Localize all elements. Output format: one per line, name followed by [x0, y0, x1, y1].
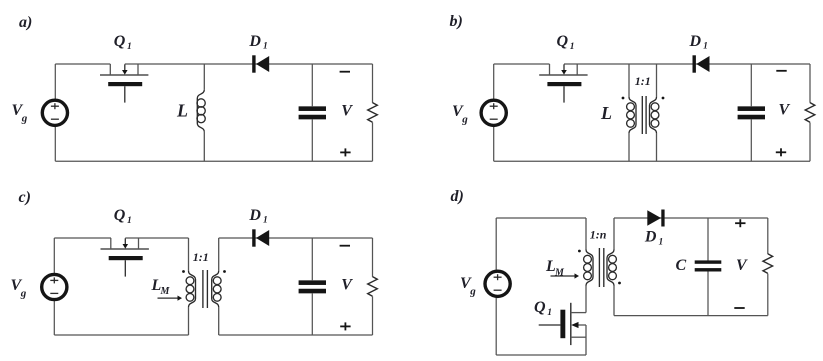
- svg-text:1:n: 1:n: [590, 228, 607, 242]
- transformer T (b): dot primary: [622, 97, 625, 100]
- label D1 (c): [248, 207, 267, 226]
- wire bottom rail secondary (d): [614, 315, 768, 317]
- svg-text:V: V: [341, 276, 353, 293]
- wire right branch (b): [809, 64, 811, 161]
- wire top rail secondary (d): [614, 217, 768, 219]
- transformer T (c): dot primary: [182, 270, 185, 273]
- label LM (c): [151, 277, 171, 297]
- transformer T (b): primary winding: [627, 64, 636, 161]
- svg-text:C: C: [676, 257, 687, 274]
- wire capacitor branch (b): [750, 64, 752, 161]
- transformer T (c): secondary winding: [212, 238, 221, 335]
- voltage source Vg (b): [481, 100, 506, 125]
- capacitor C (d): [695, 260, 722, 271]
- wire left branch (d): [495, 218, 497, 355]
- wire bottom rail primary (c): [54, 334, 188, 336]
- svg-text:D: D: [248, 33, 261, 50]
- label c): [19, 189, 31, 206]
- diode D1 (c): [252, 229, 269, 246]
- label Q1 (a): [114, 33, 132, 52]
- label V (a): [341, 102, 353, 119]
- wire bottom rail (b): [494, 160, 810, 162]
- transformer T (d): primary winding: [584, 218, 593, 313]
- transformer T (d): dot primary: [578, 250, 581, 253]
- label 1:1 (b): [635, 74, 651, 88]
- svg-text:Q: Q: [534, 299, 546, 316]
- transistor Q1 (b): [539, 64, 587, 103]
- label Vg (a): [12, 102, 28, 125]
- capacitor (b): [738, 106, 765, 119]
- diode D1 (a): [252, 55, 269, 72]
- wire top rail right (b): [564, 63, 810, 65]
- svg-text:1: 1: [127, 42, 132, 52]
- polarity minus (a): [340, 71, 350, 73]
- label D1 (a): [248, 33, 267, 52]
- label d): [451, 188, 464, 205]
- label D1 (d): [644, 229, 663, 248]
- svg-text:L: L: [600, 103, 612, 123]
- label Q1 (b): [557, 33, 575, 52]
- wire right branch (d): [767, 218, 769, 316]
- svg-text:1: 1: [263, 216, 268, 226]
- transistor Q1 (c): [101, 238, 149, 277]
- label V (d): [736, 257, 748, 274]
- svg-text:D: D: [644, 229, 657, 246]
- svg-text:1: 1: [703, 42, 708, 52]
- wire top rail primary (d): [496, 217, 586, 219]
- wire top rail secondary (c): [219, 237, 373, 239]
- wire capacitor branch (a): [311, 64, 313, 161]
- transformer T (c): core: [203, 270, 208, 308]
- label V (b): [779, 102, 791, 119]
- resistor load (a): [368, 103, 378, 123]
- wire top rail primary (c): [54, 237, 188, 239]
- svg-text:1: 1: [570, 42, 575, 52]
- magnetizing current arrow (c): [158, 296, 183, 301]
- label L (b): [600, 103, 612, 123]
- wire top rail left (b): [494, 63, 550, 65]
- label LM (d): [545, 258, 565, 278]
- wire left branch (c): [53, 238, 55, 335]
- svg-text:g: g: [461, 114, 468, 126]
- resistor load (d): [763, 254, 773, 274]
- polarity minus (b): [776, 70, 786, 72]
- svg-text:D: D: [689, 33, 702, 50]
- diode D1 (b): [693, 55, 710, 72]
- svg-text:1: 1: [127, 216, 132, 226]
- resistor load (c): [368, 277, 378, 297]
- svg-text:g: g: [21, 113, 28, 125]
- svg-text:1:1: 1:1: [635, 74, 651, 88]
- label Vg (c): [11, 277, 27, 300]
- svg-text:d): d): [451, 188, 464, 205]
- label D1 (b): [689, 33, 708, 52]
- polarity plus (d): [735, 219, 745, 227]
- wire bottom rail primary (d): [496, 354, 586, 356]
- label Vg (b): [452, 103, 468, 126]
- label Vg (d): [460, 275, 476, 298]
- resistor load (b): [805, 103, 815, 123]
- label Q1 (c): [114, 207, 132, 226]
- inductor L (a): [197, 64, 205, 161]
- diode D1 (d): [647, 210, 664, 227]
- polarity plus (c): [340, 322, 350, 330]
- capacitor (c): [299, 280, 326, 293]
- svg-text:D: D: [248, 207, 261, 224]
- svg-text:V: V: [341, 102, 353, 119]
- label 1:n (d): [590, 228, 607, 242]
- label 1:1 (c): [193, 250, 209, 264]
- transformer T (b): secondary winding: [650, 64, 659, 161]
- polarity plus (b): [776, 148, 786, 156]
- voltage source Vg (d): [485, 271, 510, 296]
- svg-text:V: V: [736, 257, 748, 274]
- svg-text:Q: Q: [114, 33, 126, 50]
- magnetizing current arrow (d): [551, 273, 580, 278]
- transformer T (b): dot secondary: [662, 97, 665, 100]
- label Q1 (d): [534, 299, 552, 318]
- svg-text:g: g: [469, 286, 476, 298]
- svg-text:b): b): [450, 13, 463, 30]
- svg-text:V: V: [779, 102, 791, 119]
- transformer T (c): dot secondary: [223, 270, 226, 273]
- label b): [450, 13, 463, 30]
- svg-text:1: 1: [547, 308, 552, 318]
- voltage source Vg (a): [42, 100, 67, 125]
- polarity minus (c): [340, 245, 350, 247]
- polarity minus (d): [734, 307, 744, 309]
- svg-text:g: g: [20, 288, 27, 300]
- wire top rail right (a): [125, 63, 373, 65]
- wire right branch (c): [372, 238, 374, 335]
- svg-text:c): c): [19, 189, 31, 206]
- transformer T (c): primary winding: [186, 238, 195, 335]
- label L (a): [176, 101, 188, 121]
- svg-text:1: 1: [659, 238, 664, 248]
- wire left branch (a): [54, 64, 56, 161]
- wire bottom rail secondary (c): [219, 334, 373, 336]
- svg-text:a): a): [19, 14, 32, 31]
- transformer T (d): secondary winding: [607, 218, 616, 316]
- wire right branch (a): [372, 64, 374, 161]
- svg-text:Q: Q: [557, 33, 569, 50]
- transistor Q1 (a): [100, 64, 148, 103]
- capacitor (a): [299, 106, 326, 119]
- svg-text:M: M: [160, 286, 171, 297]
- transistor Q1 (d): [539, 303, 586, 355]
- transformer T (d): dot secondary: [618, 282, 621, 285]
- voltage source Vg (c): [42, 274, 67, 299]
- wire left branch (b): [493, 64, 495, 161]
- label V (c): [341, 276, 353, 293]
- wire capacitor branch (c): [311, 238, 313, 335]
- label a): [19, 14, 32, 31]
- svg-text:Q: Q: [114, 207, 126, 224]
- svg-text:L: L: [176, 101, 188, 121]
- polarity plus (a): [340, 148, 350, 156]
- svg-text:1:1: 1:1: [193, 250, 209, 264]
- wire capacitor branch (d): [707, 218, 709, 316]
- transformer T (b): core: [642, 96, 646, 134]
- svg-text:1: 1: [263, 42, 268, 52]
- wire top rail left (a): [55, 63, 110, 65]
- label C (d): [676, 257, 687, 274]
- wire bottom rail (a): [55, 160, 372, 162]
- transformer T (d): core: [599, 248, 603, 287]
